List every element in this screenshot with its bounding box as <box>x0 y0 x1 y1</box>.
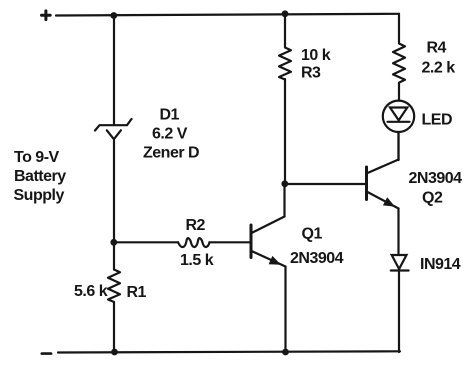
svg-text:5.6 k: 5.6 k <box>74 283 108 300</box>
svg-text:R4: R4 <box>427 40 447 57</box>
Q2 emitter arrowhead <box>383 197 395 206</box>
Q1 emitter arrowhead <box>269 256 281 265</box>
wire left vertical lower <box>113 302 115 352</box>
junction node bottom rail / R1 <box>111 349 118 356</box>
junction node bottom rail / Q1 emitter <box>282 349 289 356</box>
wire middle vertical to node <box>284 79 286 184</box>
svg-text:6.2 V: 6.2 V <box>152 126 188 143</box>
wire Q1 emitter to bottom rail <box>284 267 286 353</box>
svg-text:2N3904: 2N3904 <box>409 170 463 187</box>
svg-text:To 9-V: To 9-V <box>14 149 60 166</box>
wire Q2 base branch <box>285 183 366 185</box>
LED D2 <box>383 101 414 132</box>
transistor Q2 <box>367 133 399 209</box>
wire Q2 emitter to diode <box>397 209 399 254</box>
transistor Q1 <box>251 184 286 267</box>
resistor R1 <box>108 270 120 303</box>
junction node top rail / zener <box>110 12 117 19</box>
zener diode D1 <box>95 119 132 139</box>
svg-text:Zener D: Zener D <box>143 145 199 162</box>
junction node top rail / R3 <box>282 10 289 17</box>
wire left vertical mid <box>113 141 115 270</box>
svg-text:10 k: 10 k <box>301 47 331 64</box>
svg-text:2N3904: 2N3904 <box>290 250 344 267</box>
svg-text:1.5 k: 1.5 k <box>180 252 214 269</box>
wire right vertical top <box>398 14 400 43</box>
node A: R1/R2 junction <box>110 239 117 246</box>
wire diode to bottom rail <box>398 269 400 352</box>
wire base branch Q1 <box>114 241 178 243</box>
resistor R4 <box>393 44 405 83</box>
diode IN914 <box>391 255 409 271</box>
svg-text:R2: R2 <box>186 217 206 234</box>
wire LED to Q2 collector <box>397 132 399 160</box>
svg-text:D1: D1 <box>160 107 180 124</box>
resistor R3 <box>279 48 291 80</box>
svg-text:Q2: Q2 <box>422 190 443 207</box>
wire bottom rail <box>58 351 400 352</box>
resistor R2 <box>178 238 210 247</box>
junction node Q1 collector <box>281 180 288 187</box>
svg-text:Q1: Q1 <box>302 226 323 243</box>
svg-text:IN914: IN914 <box>420 256 461 273</box>
minus terminal label <box>42 352 51 355</box>
svg-text:R1: R1 <box>127 284 147 301</box>
svg-text:2.2 k: 2.2 k <box>422 60 456 77</box>
svg-text:LED: LED <box>422 112 453 129</box>
plus terminal label <box>42 11 51 20</box>
wire left vertical upper <box>113 16 115 125</box>
svg-text:Battery: Battery <box>14 168 66 185</box>
wire middle vertical top <box>284 15 286 48</box>
svg-text:Supply: Supply <box>14 187 65 204</box>
wire R2 to Q1 base <box>210 241 251 243</box>
wire top rail <box>56 14 399 16</box>
svg-text:R3: R3 <box>301 65 321 82</box>
wire R4 to LED <box>398 83 400 101</box>
